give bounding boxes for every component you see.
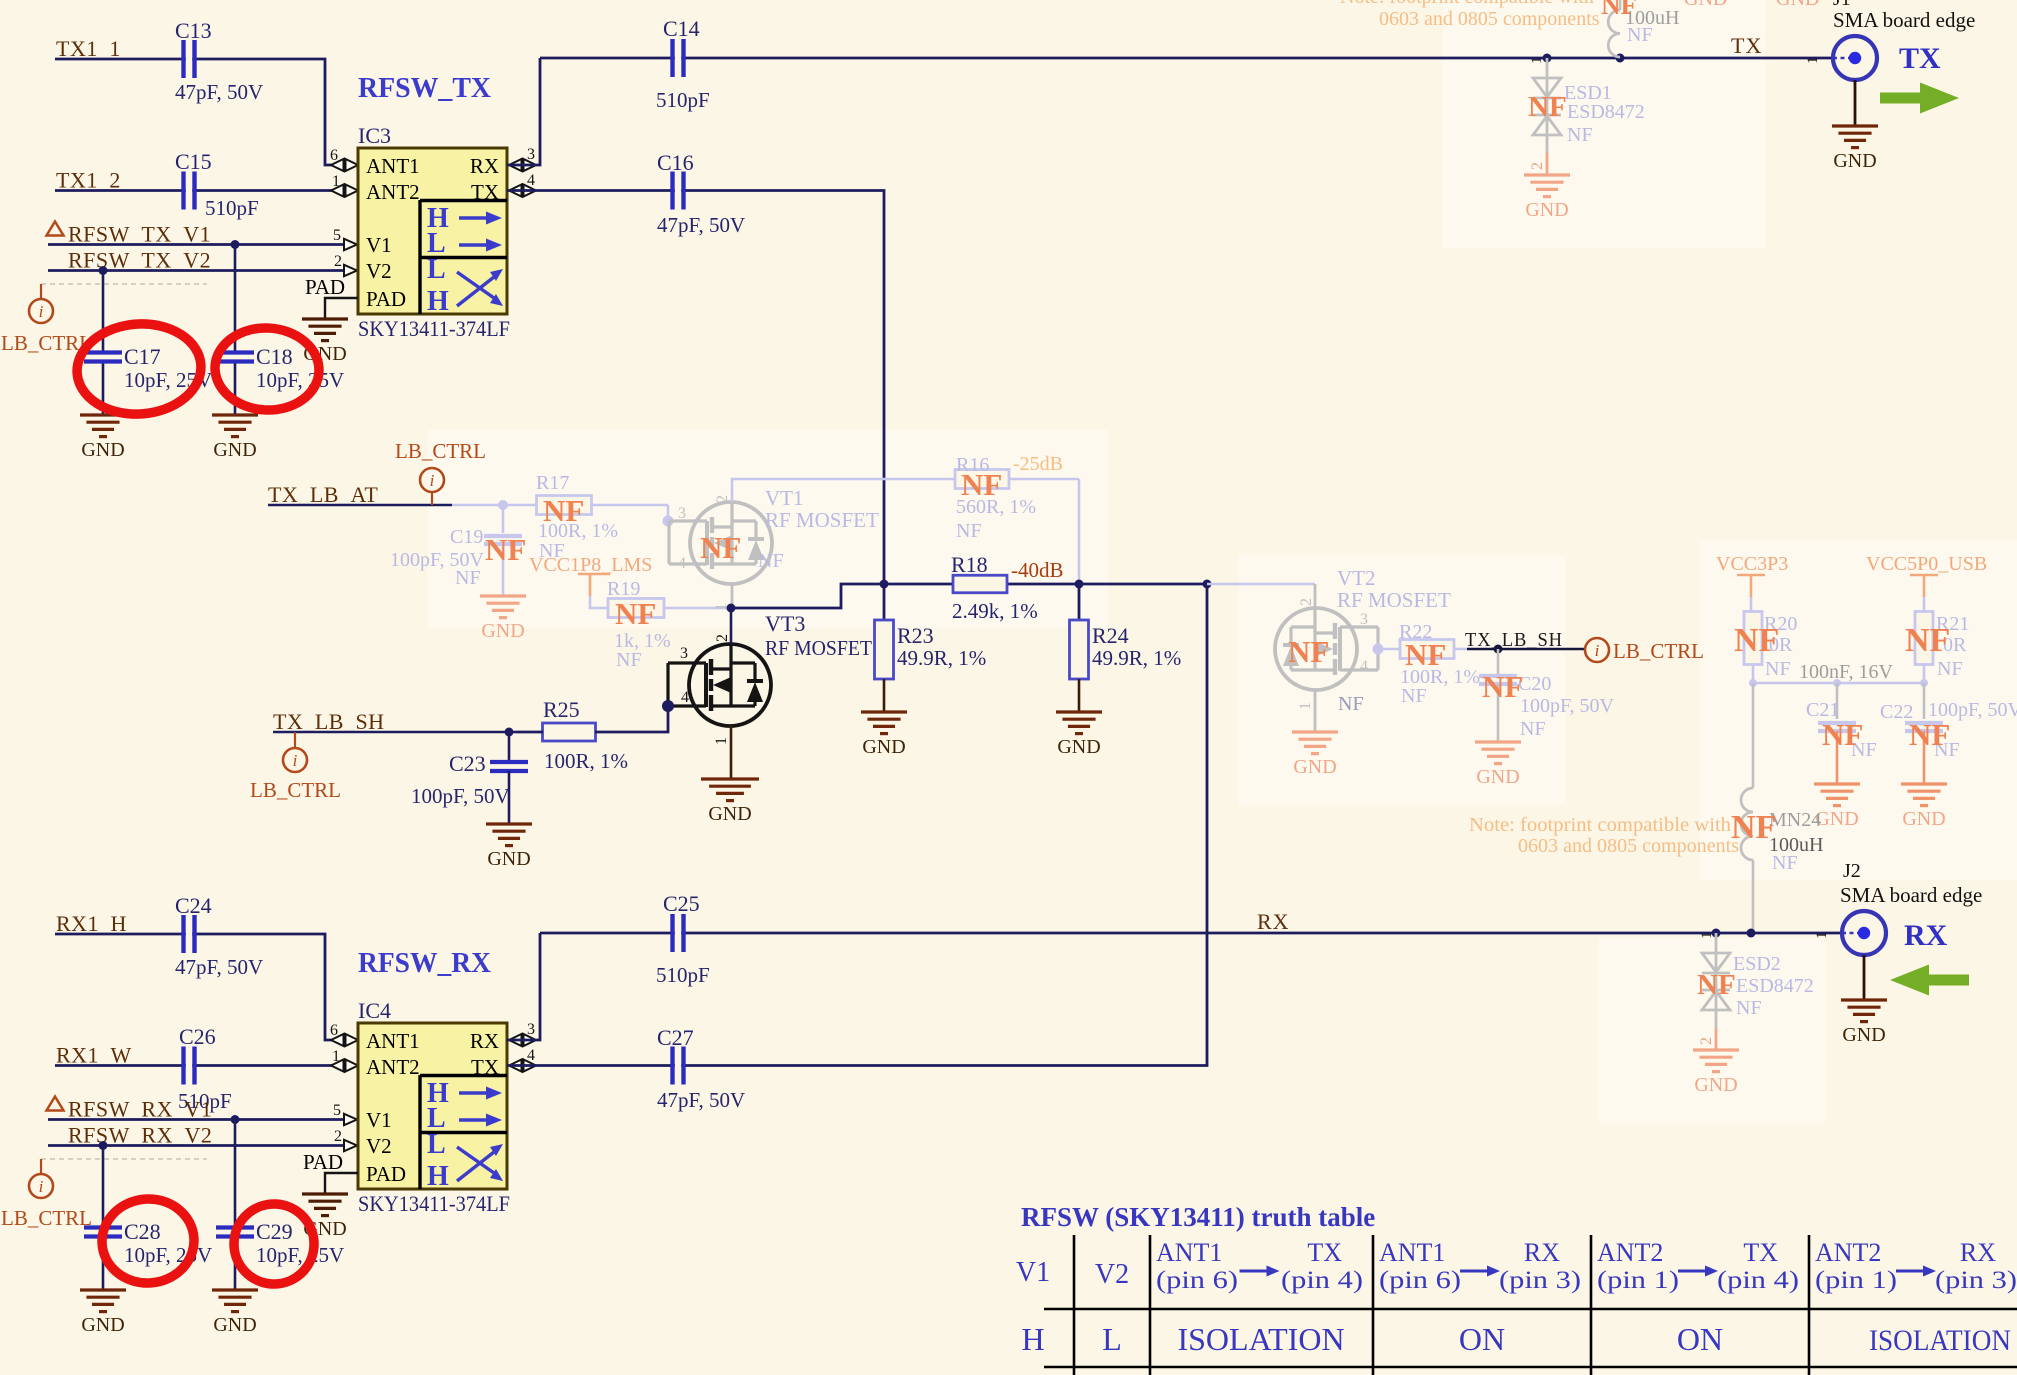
pin 4 of IC3: [509, 185, 522, 197]
svg-text:TX_LB_AT: TX_LB_AT: [268, 482, 378, 507]
svg-text:i: i: [1595, 641, 1600, 660]
svg-text:(pin 4): (pin 4): [1281, 1267, 1363, 1294]
svg-text:TX_LB_SH: TX_LB_SH: [273, 709, 385, 734]
ground of C20: [1475, 740, 1521, 743]
ground of C21: [1814, 782, 1860, 785]
svg-text:NF: NF: [1338, 693, 1364, 715]
svg-text:LB_CTRL: LB_CTRL: [1, 1206, 92, 1230]
LB_CTRL info symbol (top left): [40, 284, 42, 299]
svg-text:NF: NF: [1405, 637, 1446, 672]
svg-text:RX: RX: [470, 154, 499, 178]
svg-text:1: 1: [332, 1048, 340, 1065]
svg-text:NF: NF: [1937, 658, 1963, 680]
svg-text:(pin 6): (pin 6): [1379, 1267, 1461, 1294]
capacitor C13: [186, 40, 192, 78]
svg-text:NF: NF: [1627, 24, 1653, 46]
ground of ESD2: [1693, 1048, 1739, 1051]
resistor R18: [884, 583, 953, 586]
wire R16 to attenuator node: [1078, 479, 1081, 584]
svg-text:100R, 1%: 100R, 1%: [544, 749, 628, 773]
svg-text:IC3: IC3: [358, 123, 391, 148]
svg-text:4: 4: [1360, 658, 1368, 675]
svg-text:RX: RX: [1257, 909, 1290, 934]
svg-text:VT1: VT1: [765, 486, 804, 510]
svg-text:47pF, 50V: 47pF, 50V: [175, 80, 263, 104]
ground of C23: [486, 822, 532, 825]
svg-text:RFSW_RX_V2: RFSW_RX_V2: [68, 1123, 212, 1148]
resistor R17 (NF): [537, 496, 592, 515]
capacitor C19 (NF): [502, 505, 505, 533]
ESD diode ESD1 (NF): [1543, 54, 1552, 63]
triangle marker RFSW_RX_V1: [47, 1097, 64, 1111]
svg-text:ANT1: ANT1: [1156, 1238, 1222, 1267]
svg-text:ANT1: ANT1: [366, 1029, 420, 1053]
svg-text:GND: GND: [862, 736, 905, 758]
capacitor C23: [508, 732, 511, 762]
dashed guide line (bottom): [41, 1158, 207, 1160]
svg-text:(pin 1): (pin 1): [1597, 1267, 1679, 1294]
transistor VT3 RF MOSFET: [689, 644, 771, 726]
svg-text:GND: GND: [708, 803, 751, 825]
svg-text:GND: GND: [81, 439, 124, 461]
svg-text:3: 3: [1360, 611, 1368, 628]
node VT3 drain: [731, 584, 884, 608]
svg-text:H: H: [427, 286, 449, 317]
svg-text:LB_CTRL: LB_CTRL: [250, 778, 341, 802]
svg-text:(pin 1): (pin 1): [1815, 1267, 1897, 1294]
red annotation circle around C28: [99, 1196, 197, 1286]
svg-text:-40dB: -40dB: [1011, 558, 1064, 582]
svg-text:(pin 4): (pin 4): [1717, 1267, 1799, 1294]
svg-text:NF: NF: [700, 530, 741, 565]
svg-text:3: 3: [680, 645, 688, 662]
svg-text:MN24: MN24: [1769, 809, 1821, 831]
svg-text:V1: V1: [366, 233, 392, 257]
capacitor C15: [186, 172, 192, 210]
pin 5 of IC3: [344, 239, 357, 250]
svg-text:ESD2: ESD2: [1733, 953, 1781, 975]
svg-text:49.9R, 1%: 49.9R, 1%: [1092, 646, 1181, 670]
svg-text:NF: NF: [1601, 0, 1637, 20]
capacitor C26: [186, 1047, 192, 1085]
resistor R20 (NF): [1744, 612, 1762, 665]
svg-text:1: 1: [332, 173, 340, 190]
svg-text:R23: R23: [897, 623, 934, 648]
pin 5 of IC4: [344, 1114, 357, 1125]
svg-text:NF: NF: [1772, 852, 1798, 874]
svg-text:2: 2: [1529, 162, 1546, 170]
svg-text:ESD8472: ESD8472: [1736, 975, 1814, 997]
svg-text:4: 4: [678, 555, 686, 572]
svg-text:RFSW (SKY13411) truth table: RFSW (SKY13411) truth table: [1021, 1202, 1375, 1232]
svg-text:(pin 3): (pin 3): [1499, 1267, 1581, 1294]
svg-text:GND: GND: [1833, 150, 1876, 172]
svg-text:C23: C23: [449, 751, 486, 776]
svg-text:SKY13411-374LF: SKY13411-374LF: [358, 1191, 510, 1216]
faded highlight backgrounds: [1443, 0, 1765, 248]
svg-text:C28: C28: [124, 1219, 161, 1244]
ground of C22: [1901, 782, 1947, 785]
svg-text:C24: C24: [175, 893, 212, 918]
transistor VT2 RF MOSFET (NF): [1207, 583, 1315, 586]
svg-text:H: H: [1021, 1321, 1044, 1357]
capacitor C22 (NF): [1923, 683, 1926, 719]
svg-text:TX: TX: [1731, 33, 1762, 58]
wire VT1 drain to R16: [732, 479, 1079, 502]
red annotation circle around C29: [232, 1202, 316, 1286]
svg-text:1: 1: [1814, 932, 1830, 940]
svg-text:C19: C19: [450, 526, 483, 548]
svg-text:GND: GND: [1525, 199, 1568, 221]
svg-text:C27: C27: [657, 1025, 694, 1050]
svg-text:GND: GND: [1694, 1074, 1737, 1096]
svg-text:2: 2: [334, 253, 342, 270]
svg-text:2: 2: [334, 1128, 342, 1145]
svg-text:NF: NF: [1909, 717, 1950, 752]
svg-text:4: 4: [527, 1047, 535, 1064]
svg-text:SMA board edge: SMA board edge: [1840, 883, 1982, 907]
svg-text:RX: RX: [1960, 1238, 1996, 1267]
ground of VT2: [1292, 730, 1338, 733]
transistor VT1 RF MOSFET (NF): [667, 505, 670, 521]
capacitor C28: [102, 1146, 105, 1291]
svg-text:NF: NF: [1482, 669, 1523, 704]
dashed guide line: [41, 283, 207, 285]
svg-text:GND: GND: [1057, 736, 1100, 758]
svg-text:TX1_1: TX1_1: [56, 36, 121, 61]
svg-text:Note: footprint compatible wit: Note: footprint compatible with: [1469, 814, 1731, 836]
resistor R16 (NF): [955, 470, 1009, 489]
svg-text:NF: NF: [455, 567, 481, 589]
svg-text:RX: RX: [1904, 919, 1948, 952]
svg-text:C15: C15: [175, 149, 212, 174]
wire VT3 source to ground: [730, 725, 733, 779]
svg-text:3: 3: [527, 146, 535, 163]
wire VT2 source to ground: [1314, 690, 1317, 732]
svg-text:L: L: [427, 1129, 446, 1160]
svg-text:NF: NF: [1734, 622, 1779, 659]
capacitor C27: [507, 1064, 540, 1067]
svg-text:C18: C18: [256, 344, 293, 369]
svg-text:6: 6: [330, 1022, 338, 1039]
svg-text:2: 2: [714, 634, 731, 642]
svg-text:LB_CTRL: LB_CTRL: [1613, 639, 1704, 663]
resistor R24: [1078, 584, 1081, 620]
capacitor C17: [102, 271, 105, 416]
svg-text:510pF: 510pF: [656, 88, 710, 112]
svg-text:GND: GND: [1815, 808, 1858, 830]
ESD diode ESD2 (NF): [1712, 929, 1721, 938]
svg-text:C13: C13: [175, 18, 212, 43]
pin 1 of IC4: [331, 1060, 344, 1072]
svg-text:NF: NF: [1520, 718, 1546, 740]
svg-text:C14: C14: [663, 16, 700, 41]
svg-text:(pin 6): (pin 6): [1156, 1267, 1238, 1294]
svg-text:V1: V1: [366, 1108, 392, 1132]
node MN24 at RX line: [1747, 929, 1756, 938]
svg-text:NF: NF: [616, 649, 642, 671]
pin 1 of IC3: [331, 185, 344, 197]
ground of IC4 PAD: [302, 1192, 348, 1195]
capacitor C14: [540, 57, 1833, 60]
svg-text:C29: C29: [256, 1219, 293, 1244]
svg-text:NF: NF: [485, 532, 526, 567]
svg-text:GND: GND: [481, 620, 524, 642]
svg-text:4: 4: [527, 172, 535, 189]
svg-text:NF: NF: [758, 550, 784, 572]
svg-text:PAD: PAD: [366, 1162, 406, 1186]
resistor R21 (NF): [1915, 612, 1933, 665]
svg-text:ANT1: ANT1: [1379, 1238, 1445, 1267]
ground of C29: [212, 1288, 258, 1291]
svg-text:100pF, 50V: 100pF, 50V: [1520, 695, 1615, 717]
svg-text:NF: NF: [956, 520, 982, 542]
capacitor C20 (NF): [1497, 649, 1500, 674]
svg-text:GND: GND: [81, 1314, 124, 1336]
svg-text:PAD: PAD: [303, 1150, 343, 1174]
ground of C17: [80, 413, 126, 416]
svg-text:LB_CTRL: LB_CTRL: [395, 439, 486, 463]
capacitor C25: [540, 932, 1842, 935]
svg-text:NF: NF: [1697, 969, 1736, 1001]
svg-text:C26: C26: [179, 1024, 216, 1049]
triangle marker RFSW_TX_V1: [47, 222, 64, 236]
svg-text:VCC5P0_USB: VCC5P0_USB: [1866, 553, 1987, 575]
svg-text:(pin 3): (pin 3): [1935, 1267, 2017, 1294]
inductor choke at TX (NF): [1616, 54, 1625, 63]
net 100nF rail: [1753, 682, 1924, 685]
svg-text:L: L: [427, 254, 446, 285]
svg-text:1: 1: [1529, 57, 1545, 65]
svg-text:NF: NF: [1765, 658, 1791, 680]
svg-text:RX1_H: RX1_H: [56, 911, 127, 936]
svg-text:3: 3: [678, 505, 686, 522]
svg-text:Note: footprint compatible wit: Note: footprint compatible with: [1340, 0, 1594, 8]
capacitor C29: [234, 1120, 237, 1291]
svg-text:10pF, 25V: 10pF, 25V: [256, 368, 344, 392]
svg-text:H: H: [427, 1161, 449, 1192]
svg-text:TX: TX: [1743, 1238, 1778, 1267]
svg-text:V2: V2: [366, 259, 392, 283]
svg-text:TX: TX: [471, 1055, 499, 1079]
svg-text:R25: R25: [543, 697, 580, 722]
svg-text:47pF, 50V: 47pF, 50V: [657, 213, 745, 237]
svg-text:4: 4: [681, 689, 689, 706]
svg-text:-25dB: -25dB: [1013, 453, 1063, 475]
svg-text:RFSW_TX: RFSW_TX: [358, 72, 491, 104]
svg-text:V2: V2: [1095, 1259, 1129, 1290]
svg-text:NF: NF: [1736, 997, 1762, 1019]
svg-text:PAD: PAD: [366, 287, 406, 311]
svg-text:ANT2: ANT2: [366, 1055, 420, 1079]
svg-text:RFSW_RX: RFSW_RX: [358, 947, 491, 979]
svg-text:i: i: [39, 302, 44, 321]
ground of C19: [480, 594, 526, 597]
svg-text:VT2: VT2: [1337, 566, 1376, 590]
svg-text:RX1_W: RX1_W: [56, 1043, 132, 1068]
svg-text:J2: J2: [1843, 860, 1861, 882]
svg-text:1: 1: [1699, 932, 1715, 940]
svg-text:i: i: [430, 471, 435, 490]
ground of J2: [1863, 955, 1866, 1000]
red annotation circle around C17: [74, 320, 204, 418]
svg-text:RFSW_RX_V1: RFSW_RX_V1: [68, 1097, 212, 1122]
green arrow RX in: [1890, 965, 1929, 996]
capacitor C18: [234, 245, 237, 416]
svg-text:GND: GND: [1776, 0, 1819, 10]
capacitor C21 (NF): [1836, 683, 1839, 719]
svg-text:i: i: [293, 751, 298, 770]
ground of R23: [861, 710, 907, 713]
svg-text:NF: NF: [1822, 717, 1863, 752]
resistor R22 (NF): [1373, 644, 1384, 655]
svg-text:GND: GND: [1902, 808, 1945, 830]
svg-text:GND: GND: [487, 848, 530, 870]
green arrow TX out: [1920, 83, 1959, 114]
svg-text:R17: R17: [536, 472, 569, 494]
svg-text:ANT2: ANT2: [1815, 1238, 1881, 1267]
capacitor C24: [186, 915, 192, 953]
svg-text:5: 5: [333, 1102, 341, 1119]
svg-text:RF MOSFET: RF MOSFET: [765, 636, 872, 660]
svg-text:TX: TX: [1307, 1238, 1342, 1267]
svg-text:2.49k, 1%: 2.49k, 1%: [952, 599, 1038, 623]
ground of J1: [1854, 80, 1857, 126]
svg-text:GND: GND: [1684, 0, 1727, 10]
LB_CTRL info symbol (right): [1585, 638, 1609, 662]
svg-text:GND: GND: [1293, 756, 1336, 778]
svg-text:GND: GND: [213, 439, 256, 461]
svg-text:47pF, 50V: 47pF, 50V: [657, 1088, 745, 1112]
svg-text:C25: C25: [663, 891, 700, 916]
svg-text:0603 and 0805 components: 0603 and 0805 components: [1379, 8, 1600, 30]
svg-text:100pF, 50V: 100pF, 50V: [411, 784, 510, 808]
svg-text:TX1_2: TX1_2: [56, 168, 121, 193]
resistor R19 (NF): [608, 599, 664, 618]
svg-text:i: i: [39, 1177, 44, 1196]
svg-text:PAD: PAD: [305, 275, 345, 299]
svg-text:1: 1: [1805, 57, 1821, 65]
svg-text:C16: C16: [657, 150, 694, 175]
svg-text:2: 2: [1298, 598, 1315, 606]
svg-text:5: 5: [333, 227, 341, 244]
ground of IC3 PAD: [302, 317, 348, 320]
svg-text:GND: GND: [1842, 1024, 1885, 1046]
svg-text:TX: TX: [1899, 42, 1941, 75]
svg-text:V1: V1: [1016, 1257, 1050, 1288]
svg-text:RX: RX: [1524, 1238, 1560, 1267]
svg-text:NF: NF: [1288, 634, 1329, 669]
pin 6 of IC4: [331, 1034, 344, 1046]
svg-text:49.9R, 1%: 49.9R, 1%: [897, 646, 986, 670]
svg-text:ANT2: ANT2: [366, 180, 420, 204]
svg-text:6: 6: [330, 147, 338, 164]
svg-text:NF: NF: [961, 467, 1002, 502]
resistor R23: [883, 584, 886, 620]
ground of C18: [212, 413, 258, 416]
svg-text:L: L: [1102, 1321, 1122, 1357]
svg-text:C17: C17: [124, 344, 161, 369]
svg-text:IC4: IC4: [358, 998, 391, 1023]
ground of R24: [1056, 710, 1102, 713]
svg-text:ON: ON: [1677, 1321, 1723, 1357]
LB_CTRL info symbol (bottom middle): [294, 732, 296, 749]
svg-text:V2: V2: [366, 1134, 392, 1158]
svg-text:R18: R18: [951, 552, 988, 577]
svg-text:ON: ON: [1459, 1321, 1505, 1357]
capacitor C16: [507, 191, 884, 585]
LB_CTRL info symbol (bottom left): [40, 1159, 42, 1174]
svg-text:RFSW_TX_V2: RFSW_TX_V2: [68, 248, 211, 273]
svg-text:NF: NF: [615, 596, 656, 631]
svg-text:GND: GND: [213, 1314, 256, 1336]
svg-text:VT3: VT3: [765, 611, 805, 636]
svg-text:ANT1: ANT1: [366, 154, 420, 178]
wire TX_LB_AT faded: [452, 504, 537, 507]
pin 3 of IC3 and wire to TX line: [509, 159, 522, 171]
svg-text:GND: GND: [1476, 766, 1519, 788]
inductor MN24 (NF): [1752, 683, 1755, 788]
svg-text:1: 1: [1297, 702, 1314, 710]
svg-text:SMA board edge: SMA board edge: [1833, 8, 1975, 32]
svg-text:ANT2: ANT2: [1597, 1238, 1663, 1267]
pin 6 of IC3: [331, 159, 344, 171]
svg-text:NF: NF: [1567, 124, 1593, 146]
svg-text:47pF, 50V: 47pF, 50V: [175, 955, 263, 979]
svg-text:ESD8472: ESD8472: [1567, 101, 1645, 123]
svg-text:10pF, 25V: 10pF, 25V: [256, 1243, 344, 1267]
svg-text:RX: RX: [470, 1029, 499, 1053]
svg-text:ISOLATION: ISOLATION: [1869, 1324, 2011, 1357]
svg-text:100nF, 16V: 100nF, 16V: [1799, 661, 1894, 683]
svg-text:ISOLATION: ISOLATION: [1177, 1321, 1344, 1357]
svg-text:0603 and 0805 components: 0603 and 0805 components: [1518, 835, 1739, 857]
pin 3 of IC4 and wire to RX line: [509, 1034, 522, 1046]
ground of C28: [80, 1288, 126, 1291]
svg-text:RF MOSFET: RF MOSFET: [1337, 588, 1451, 612]
svg-text:510pF: 510pF: [205, 196, 259, 220]
svg-text:R24: R24: [1092, 623, 1129, 648]
svg-text:VCC3P3: VCC3P3: [1716, 553, 1788, 575]
pin 4 of IC4: [509, 1060, 522, 1072]
svg-text:1: 1: [713, 737, 730, 745]
svg-text:NF: NF: [1401, 685, 1427, 707]
svg-text:NF: NF: [543, 493, 584, 528]
svg-text:3: 3: [527, 1021, 535, 1038]
svg-text:TX: TX: [471, 180, 499, 204]
svg-text:NF: NF: [1528, 91, 1567, 123]
svg-text:10pF, 25V: 10pF, 25V: [124, 1243, 212, 1267]
svg-text:SKY13411-374LF: SKY13411-374LF: [358, 316, 510, 341]
pin 2 of IC4: [344, 1140, 357, 1151]
svg-text:510pF: 510pF: [656, 963, 710, 987]
ground of VT3: [701, 777, 759, 780]
pin 2 of IC3: [344, 265, 357, 276]
svg-text:NF: NF: [1905, 622, 1950, 659]
svg-text:RF MOSFET: RF MOSFET: [765, 508, 879, 532]
resistor R25: [543, 723, 596, 741]
red annotation circle around C18: [213, 325, 321, 412]
ground of ESD1: [1524, 173, 1570, 176]
svg-text:RFSW_TX_V1: RFSW_TX_V1: [68, 222, 211, 247]
svg-text:2: 2: [714, 495, 731, 503]
wire attenuator node to RX line: [540, 584, 1207, 1066]
svg-text:2: 2: [1698, 1037, 1715, 1045]
